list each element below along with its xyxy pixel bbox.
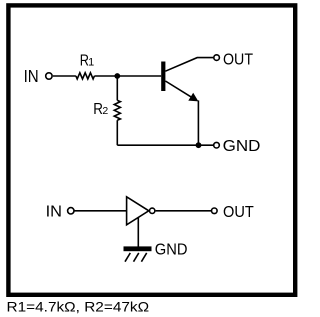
transistor Q1 collector wire to OUT <box>165 58 213 72</box>
label R2 <box>93 101 108 118</box>
wire ground rail (bottom of top circuit) <box>117 144 213 146</box>
transistor Q1 emitter wire <box>165 81 193 98</box>
wire inverter to OUT <box>156 210 211 212</box>
svg-text:R1=4.7kΩ, R2=47kΩ: R1=4.7kΩ, R2=47kΩ <box>7 298 150 314</box>
wire IN to inverter <box>75 210 127 212</box>
svg-text:GND: GND <box>223 138 261 155</box>
terminal OUT (top) <box>214 55 220 61</box>
transistor Q1 emitter arrow <box>188 93 198 102</box>
wire R1 to transistor base <box>94 75 161 77</box>
svg-text:OUT: OUT <box>223 52 253 69</box>
svg-text:GND: GND <box>155 242 188 259</box>
ground bar <box>124 246 152 251</box>
transistor Q1 base bar <box>161 62 165 92</box>
wire node to R2 <box>116 76 118 100</box>
terminal OUT (bottom) <box>212 208 218 214</box>
ground hatch 3 <box>141 253 146 262</box>
svg-text:2: 2 <box>102 105 108 117</box>
inverter U1 output bubble <box>150 208 155 213</box>
node junction dot (emitter/ground rail) <box>196 142 202 148</box>
terminal IN (top) <box>46 73 52 79</box>
terminal IN (bottom) <box>68 208 74 214</box>
svg-text:OUT: OUT <box>223 204 254 221</box>
ground hatch 2 <box>134 253 139 262</box>
node junction dot (R1/R2) <box>114 73 120 79</box>
resistor R1 <box>76 73 95 79</box>
resistor R2 <box>114 100 120 120</box>
wire inverter to ground symbol <box>137 218 139 247</box>
ground hatch 1 <box>125 253 130 262</box>
inverter U1 triangle <box>127 197 149 225</box>
wire emitter to ground rail <box>197 100 199 145</box>
label R1 <box>80 53 95 70</box>
wire IN to R1 <box>53 75 76 77</box>
terminal GND (top) <box>214 142 220 148</box>
svg-text:IN: IN <box>24 66 39 86</box>
svg-text:1: 1 <box>88 57 94 69</box>
wire R2 to ground rail <box>116 120 118 145</box>
svg-text:IN: IN <box>46 204 62 221</box>
